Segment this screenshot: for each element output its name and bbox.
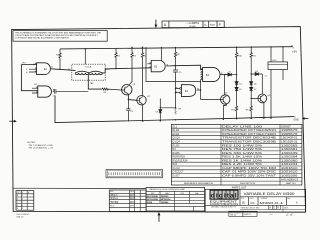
dec form boxes below border <box>229 211 257 216</box>
node gate1 top input <box>33 64 34 65</box>
svg-text:9-3-71: 9-3-71 <box>130 198 135 200</box>
capacitor C5 in series <box>173 70 178 108</box>
svg-text:INTEGRATED CKT DEC7440N: INTEGRATED CKT DEC7440N <box>222 133 276 136</box>
parts list table <box>171 124 302 185</box>
diode D7 <box>250 85 253 91</box>
svg-text:2: 2 <box>22 198 23 200</box>
svg-text:digital: digital <box>211 192 238 199</box>
svg-text:RES 1.5K 1/4W 10%: RES 1.5K 1/4W 10% <box>222 156 263 159</box>
wire box right leg <box>282 47 284 80</box>
registration arrow right (left-pointing) <box>302 117 308 120</box>
gate pin number marks <box>35 62 222 92</box>
svg-text:1300365: 1300365 <box>281 144 299 147</box>
svg-text:RES 100 1/4W 5%: RES 100 1/4W 5% <box>222 144 263 147</box>
svg-text:REFERENCE DESIGNATION: REFERENCE DESIGNATION <box>184 182 213 185</box>
svg-text:TRANSISTOR DEC6534B: TRANSISTOR DEC6534B <box>222 137 277 140</box>
wire Q2 emitter to ground <box>142 104 144 121</box>
nand gate E4 <box>181 85 195 97</box>
printed circuit rev cells <box>269 205 281 209</box>
capacitor C4 to ground <box>126 100 130 122</box>
delay line DL1 dashed box <box>72 64 105 80</box>
svg-text:1: 1 <box>22 195 23 197</box>
svg-text:Q2,Q3: Q2,Q3 <box>172 137 180 140</box>
svg-text:4: 4 <box>22 205 23 207</box>
svg-text:DEC3009B: DEC3009B <box>147 196 158 198</box>
svg-text:VARIABLE DELAY M360: VARIABLE DELAY M360 <box>244 192 295 196</box>
svg-text:1300360: 1300360 <box>281 159 299 162</box>
parts list text <box>172 125 298 189</box>
resistor R10 column <box>235 47 237 74</box>
svg-text:PIN 14 ON EACH IC = +5V: PIN 14 ON EACH IC = +5V <box>29 147 54 150</box>
svg-text:W.Hnd: W.Hnd <box>111 201 119 204</box>
bottom-left mini table marks <box>17 192 30 210</box>
resistor R15 to ground <box>250 98 252 118</box>
svg-text:1905576: 1905576 <box>281 133 299 136</box>
svg-text:1300439: 1300439 <box>281 152 299 155</box>
svg-text:INTEGRATED CKT DEC8251N: INTEGRATED CKT DEC8251N <box>222 129 276 132</box>
svg-text:NUMBER: NUMBER <box>261 198 267 200</box>
digital logo black box <box>210 190 239 200</box>
svg-text:CAP 680PF 100V 5% DM: CAP 680PF 100V 5% DM <box>222 167 276 170</box>
svg-text:CORPORATION: CORPORATION <box>210 203 239 206</box>
transistor Q4 <box>258 94 267 103</box>
svg-text:D3: D3 <box>255 71 257 73</box>
svg-text:DRB 102: DRB 102 <box>230 215 237 217</box>
nor gate E3 <box>203 68 220 82</box>
wire E3 output <box>220 74 228 76</box>
node R2 junction <box>115 68 116 69</box>
+5V terminal arrow <box>291 45 292 47</box>
ground rail <box>55 96 294 123</box>
node gate1 output <box>59 69 60 70</box>
svg-text:RES 750 1/4W 5%: RES 750 1/4W 5% <box>222 148 263 151</box>
wire Q1 emitter <box>128 94 137 100</box>
svg-text:1301234: 1301234 <box>281 163 299 166</box>
svg-text:CAP .01 MFD 100V 20% DISC: CAP .01 MFD 100V 20% DISC <box>222 171 276 174</box>
notice box text <box>15 31 102 39</box>
resistor R2 drop <box>115 48 117 68</box>
svg-text:ASSY: ASSY <box>210 23 216 26</box>
wire delay tap <box>88 75 102 90</box>
registration arrow bottom (up) <box>158 212 161 222</box>
svg-text:1300391: 1300391 <box>281 148 299 151</box>
diode D6 <box>250 74 253 85</box>
svg-text:NOTES:: NOTES: <box>27 142 36 144</box>
svg-text:E3,E4: E3,E4 <box>172 133 179 136</box>
wire 1F2 feedback to gate E1b <box>21 65 37 91</box>
transistor Q3 <box>221 95 230 104</box>
nand gate E2 <box>151 61 165 72</box>
nand gate E1b <box>38 86 52 97</box>
wire delay out <box>102 68 151 73</box>
capacitor C1 <box>53 89 89 94</box>
nand gate E1a <box>37 63 51 75</box>
drawing border frame <box>12 27 306 213</box>
svg-text:RES 2.2K 1/4W 5%: RES 2.2K 1/4W 5% <box>222 163 263 166</box>
diode D4 <box>235 75 238 85</box>
svg-text:1N3606: 1N3606 <box>161 202 169 204</box>
edge connector strip <box>106 170 163 178</box>
svg-text:1′. K: 1′. K <box>286 213 293 217</box>
svg-text:M360-0-1: M360-0-1 <box>260 201 284 205</box>
svg-text:PART NO.: PART NO. <box>286 182 296 185</box>
svg-text:+5V: +5V <box>292 50 297 54</box>
svg-text:—C-3987G: —C-3987G <box>187 22 200 25</box>
title block main box <box>205 189 306 212</box>
svg-text:R4,R6: R4,R6 <box>172 152 180 155</box>
svg-text:DRA 110: DRA 110 <box>16 216 23 219</box>
svg-text:R1,R2: R1,R2 <box>172 144 180 147</box>
svg-text:R10,R11,R14: R10,R11,R14 <box>172 159 188 162</box>
svg-text:SHEET 1: SHEET 1 <box>244 214 251 216</box>
resistor R3 drop to Q1 collector <box>129 47 133 85</box>
+5V power rail <box>60 47 292 49</box>
svg-text:DL1: DL1 <box>172 125 177 128</box>
component box R19 <box>268 62 288 70</box>
svg-text:D4: D4 <box>239 83 241 85</box>
resistor R11 column <box>250 47 252 74</box>
notice box top-left <box>13 31 107 42</box>
svg-text:J.Mgw: J.Mgw <box>111 197 118 200</box>
svg-text:D664: D664 <box>147 201 153 204</box>
svg-text:D2: D2 <box>229 71 231 73</box>
svg-text:R15: R15 <box>172 163 177 166</box>
resistor R1 drop from rail <box>59 49 61 69</box>
resistor R9 to ground <box>174 108 176 120</box>
title block left signature box <box>109 190 146 211</box>
svg-text:DL1 A: DL1 A <box>86 65 92 68</box>
svg-text:1503409-01: 1503409-01 <box>281 137 298 140</box>
diode D5 <box>235 85 238 91</box>
diode D2 series <box>228 73 237 76</box>
svg-text:P: P <box>219 23 221 27</box>
title left box tiny text <box>110 190 134 207</box>
diode D3 series to Q4 collector <box>251 72 262 75</box>
conversion chart text <box>147 188 199 204</box>
svg-text:1501539-01: 1501539-01 <box>281 141 298 144</box>
svg-text:PIN 7 ON EACH IC = GND: PIN 7 ON EACH IC = GND <box>29 144 54 147</box>
registration arrow top (down) <box>155 20 158 28</box>
delay line coil <box>75 71 102 74</box>
svg-text:9-8-71: 9-8-71 <box>130 202 135 204</box>
svg-text:3: 3 <box>22 202 23 204</box>
svg-text:Q1,Q4: Q1,Q4 <box>172 141 180 144</box>
svg-text:RES 330 1/4W 5%: RES 330 1/4W 5% <box>222 152 263 155</box>
svg-text:PARTS LIST: PARTS LIST <box>232 185 247 189</box>
title block strip line <box>13 187 146 189</box>
svg-text:PRINTED CIRCUIT REV.: PRINTED CIRCUIT REV. <box>241 207 261 209</box>
svg-text:GND: GND <box>293 118 299 121</box>
svg-text:MPS6534: MPS6534 <box>161 198 171 201</box>
svg-text:9-2-71: 9-2-71 <box>130 195 135 197</box>
svg-text:1909357: 1909357 <box>281 125 291 128</box>
svg-text:TAP: TAP <box>90 82 94 85</box>
svg-text:C1,C2: C1,C2 <box>172 167 180 170</box>
wire feedback to E3 <box>146 48 201 82</box>
resistor R8 <box>102 88 121 90</box>
svg-text:C4,C5,C7: C4,C5,C7 <box>172 171 184 174</box>
svg-text:1300364: 1300364 <box>281 156 299 159</box>
registration arrow left (right-pointing) <box>9 120 16 123</box>
svg-text:D6: D6 <box>254 83 256 85</box>
rail stub E2 power <box>161 48 163 61</box>
svg-text:1001610: 1001610 <box>281 171 299 174</box>
transistor Q2 <box>137 96 146 105</box>
svg-text:D1-D7: D1-D7 <box>172 175 180 178</box>
svg-text:DEC6534B: DEC6534B <box>147 198 158 201</box>
wire E2 output to C5 node and E3 input <box>166 65 202 69</box>
title block text <box>16 190 298 218</box>
svg-text:1905575: 1905575 <box>281 129 299 132</box>
svg-text:RES 1K 1/4W 10%: RES 1K 1/4W 10% <box>222 159 263 162</box>
svg-text:CODE: CODE <box>250 198 254 200</box>
svg-text:COPYRIGHT 1971 DIGITAL EQUIPME: COPYRIGHT 1971 DIGITAL EQUIPMENT CORPORA… <box>15 36 69 39</box>
wire rail stub to delay line <box>84 49 86 64</box>
resistor R4 drop to Q2 collector <box>141 47 143 95</box>
svg-text:1001610: 1001610 <box>281 167 299 170</box>
svg-text:D5: D5 <box>239 89 241 91</box>
wire gate E1a output <box>51 69 76 71</box>
wire Q4 emitter to ground <box>262 102 265 118</box>
bottom-left mini table <box>16 191 34 211</box>
svg-text:1005306: 1005306 <box>281 175 299 178</box>
transistor diode conversion chart <box>146 187 205 211</box>
resistor R14 to ground <box>235 91 237 119</box>
svg-text:EQUIPMENT: EQUIPMENT <box>210 201 239 203</box>
signature scribbles <box>111 194 135 204</box>
resistor R6 drop <box>174 48 176 70</box>
svg-text:PROD.: PROD. <box>110 205 115 207</box>
svg-text:CAP 6.8MFD 35V 10% TANT: CAP 6.8MFD 35V 10% TANT <box>222 175 277 178</box>
svg-text:D7: D7 <box>254 89 256 91</box>
svg-text:A-PL-M360-0-5: A-PL-M360-0-5 <box>281 178 299 181</box>
svg-text:TRANSISTOR & DIODE CONVERSION: TRANSISTOR & DIODE CONVERSION CHART <box>149 188 185 191</box>
wire Q3 emitter to ground <box>223 104 226 120</box>
svg-text:DEC FORM NO: DEC FORM NO <box>230 213 242 215</box>
svg-text:TRANSISTOR DEC3009B: TRANSISTOR DEC3009B <box>222 141 277 144</box>
svg-text:E1,E2: E1,E2 <box>172 129 179 132</box>
wire box left leg <box>270 47 272 118</box>
svg-text:DELAY LINE 100: DELAY LINE 100 <box>222 125 263 128</box>
wire Q4 base <box>251 91 258 99</box>
diode D1 to ground <box>159 99 176 121</box>
wire E4 output up to E3 input <box>197 82 201 91</box>
transistor Q1 <box>122 85 132 95</box>
svg-text:SIZE: SIZE <box>241 198 244 200</box>
svg-text:CS M360: CS M360 <box>189 26 196 28</box>
svg-text:R8,R9,R16: R8,R9,R16 <box>172 156 185 159</box>
revision strip box top-center <box>162 21 224 28</box>
wire Q3 collector <box>224 75 226 95</box>
svg-text:5: 5 <box>22 208 23 210</box>
svg-text:CS: CS <box>250 201 254 205</box>
svg-text:DESCRIPTION: DESCRIPTION <box>240 183 255 185</box>
svg-text:2N3009: 2N3009 <box>161 196 169 198</box>
